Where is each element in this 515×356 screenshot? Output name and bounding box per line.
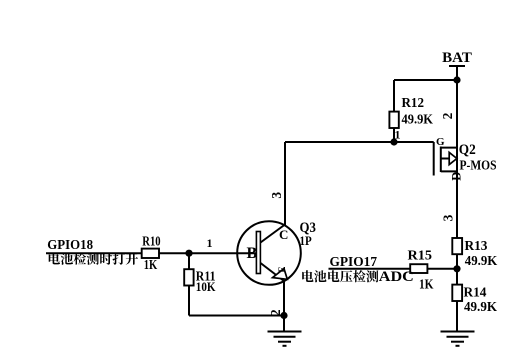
svg-text:10K: 10K bbox=[196, 280, 216, 294]
svg-text:G: G bbox=[436, 136, 445, 148]
svg-text:2: 2 bbox=[268, 309, 283, 316]
svg-text:BAT: BAT bbox=[442, 50, 472, 66]
svg-text:1P: 1P bbox=[300, 234, 313, 248]
svg-text:3: 3 bbox=[440, 214, 455, 221]
svg-text:C: C bbox=[279, 227, 288, 242]
svg-text:1K: 1K bbox=[419, 278, 434, 293]
svg-text:E: E bbox=[277, 266, 287, 272]
svg-text:49.9K: 49.9K bbox=[402, 112, 434, 127]
svg-text:Q2: Q2 bbox=[459, 142, 476, 158]
svg-text:1K: 1K bbox=[144, 258, 158, 273]
svg-text:GPIO17: GPIO17 bbox=[330, 255, 378, 270]
svg-text:2: 2 bbox=[440, 112, 455, 119]
svg-text:R13: R13 bbox=[465, 239, 488, 254]
svg-text:R14: R14 bbox=[464, 286, 487, 301]
svg-text:R10: R10 bbox=[142, 234, 160, 249]
svg-text:49.9K: 49.9K bbox=[465, 254, 498, 269]
svg-text:ADC: ADC bbox=[379, 269, 414, 285]
svg-text:P-MOS: P-MOS bbox=[460, 158, 497, 173]
svg-text:1: 1 bbox=[395, 128, 401, 142]
svg-text:D: D bbox=[449, 172, 463, 181]
svg-text:B: B bbox=[247, 245, 258, 262]
svg-text:49.9K: 49.9K bbox=[464, 300, 497, 315]
svg-text:R15: R15 bbox=[408, 249, 433, 264]
svg-text:1: 1 bbox=[207, 236, 213, 250]
svg-text:3: 3 bbox=[269, 192, 284, 199]
svg-text:GPIO18: GPIO18 bbox=[47, 238, 93, 253]
svg-text:R12: R12 bbox=[402, 96, 425, 111]
